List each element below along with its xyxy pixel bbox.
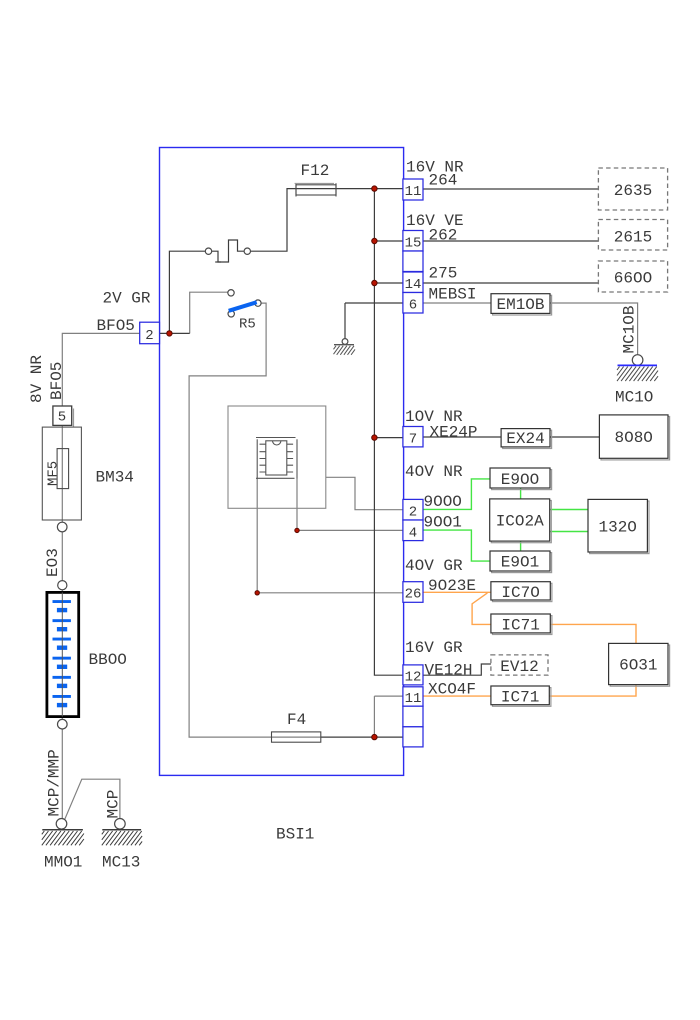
svg-text:MCP/MMP: MCP/MMP	[46, 749, 64, 816]
svg-text:66OO: 66OO	[614, 270, 652, 288]
svg-text:XE24P: XE24P	[430, 424, 478, 442]
svg-text:16V GR: 16V GR	[405, 639, 463, 657]
svg-text:8V NR: 8V NR	[28, 355, 46, 403]
svg-text:26: 26	[405, 587, 422, 603]
svg-text:262: 262	[429, 227, 458, 245]
svg-text:MC1O: MC1O	[615, 389, 653, 407]
svg-text:XCO4F: XCO4F	[428, 681, 476, 699]
svg-text:EX24: EX24	[506, 430, 544, 448]
svg-text:132O: 132O	[598, 519, 636, 537]
svg-text:4OV NR: 4OV NR	[405, 463, 463, 481]
svg-text:11: 11	[405, 691, 422, 707]
svg-text:11: 11	[405, 184, 422, 200]
svg-text:MC1OB: MC1OB	[621, 305, 639, 353]
svg-text:2: 2	[145, 328, 153, 344]
svg-text:VE12H: VE12H	[425, 662, 473, 680]
svg-text:4: 4	[409, 526, 417, 542]
svg-text:2635: 2635	[614, 182, 652, 200]
svg-text:MC13: MC13	[102, 854, 140, 872]
svg-text:BM34: BM34	[96, 469, 134, 487]
svg-text:F4: F4	[287, 711, 306, 729]
svg-text:E9OO: E9OO	[501, 471, 539, 489]
svg-text:BFO5: BFO5	[97, 317, 135, 335]
svg-text:2615: 2615	[614, 229, 652, 247]
svg-text:ICO2A: ICO2A	[496, 513, 544, 531]
svg-text:14: 14	[405, 277, 422, 293]
svg-text:BFO5: BFO5	[48, 362, 66, 400]
svg-text:EV12: EV12	[500, 658, 538, 676]
svg-text:12: 12	[405, 670, 422, 686]
svg-text:2V GR: 2V GR	[103, 290, 151, 308]
svg-text:2: 2	[409, 505, 417, 521]
svg-text:8O8O: 8O8O	[614, 429, 652, 447]
svg-text:F12: F12	[301, 162, 330, 180]
svg-text:IC7O: IC7O	[501, 584, 539, 602]
svg-text:6O31: 6O31	[619, 657, 657, 675]
svg-text:R5: R5	[239, 317, 256, 333]
svg-text:BBOO: BBOO	[89, 651, 127, 669]
svg-text:4OV GR: 4OV GR	[405, 557, 463, 575]
svg-text:264: 264	[429, 172, 458, 190]
svg-text:5: 5	[58, 410, 66, 426]
svg-text:E9O1: E9O1	[501, 554, 539, 572]
svg-text:BSI1: BSI1	[276, 826, 314, 844]
svg-text:9OOO: 9OOO	[424, 493, 462, 511]
svg-text:9OO1: 9OO1	[424, 513, 462, 531]
svg-text:7: 7	[409, 432, 417, 448]
svg-text:EM1OB: EM1OB	[496, 296, 544, 314]
svg-text:275: 275	[429, 265, 458, 283]
svg-text:IC71: IC71	[501, 617, 539, 635]
svg-text:MF5: MF5	[46, 461, 62, 486]
svg-text:9O23E: 9O23E	[428, 577, 476, 595]
svg-text:MMO1: MMO1	[44, 854, 82, 872]
svg-text:IC71: IC71	[501, 689, 539, 707]
svg-text:6: 6	[409, 298, 417, 314]
svg-text:EO3: EO3	[44, 548, 62, 577]
svg-text:15: 15	[405, 236, 422, 252]
svg-text:MCP: MCP	[105, 790, 123, 819]
svg-text:MEBSI: MEBSI	[429, 286, 477, 304]
